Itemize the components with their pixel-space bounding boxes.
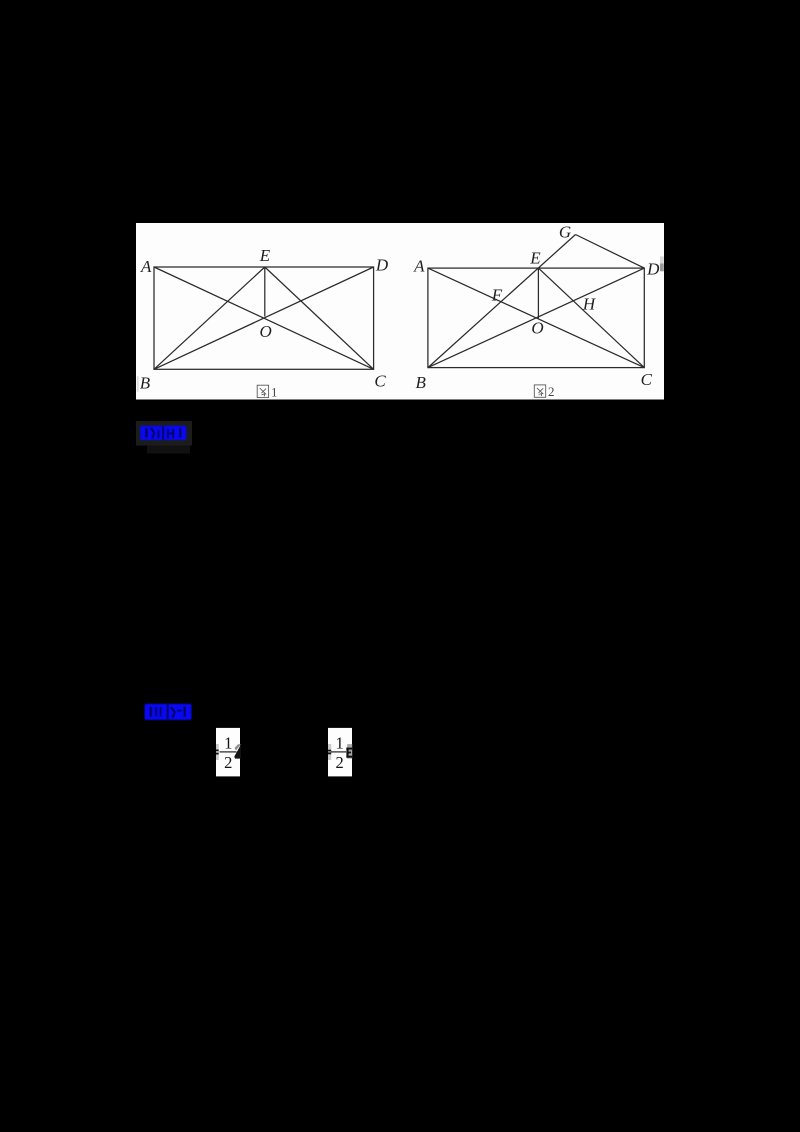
diagonal AC (figure 2) — [428, 268, 644, 368]
svg-text:B: B — [140, 374, 151, 393]
svg-text:2: 2 — [335, 753, 343, 772]
svg-text:F: F — [491, 286, 503, 305]
svg-text:E: E — [259, 246, 271, 265]
white figure panel — [136, 223, 664, 400]
blue badge 1 (【分析】) — [140, 426, 186, 440]
diagonal BD (figure 1) — [154, 267, 374, 369]
halo behind badge 1 — [136, 421, 192, 446]
svg-text:1: 1 — [335, 734, 343, 753]
white math patch 1 — [216, 728, 240, 777]
svg-text:O: O — [531, 319, 543, 338]
svg-text:1: 1 — [271, 384, 278, 399]
svg-text:D: D — [646, 260, 660, 279]
line BEG (figure 2) — [428, 235, 576, 368]
rectangle ABCD (figure 1) — [154, 267, 374, 369]
gray band left (patch 1) — [216, 744, 219, 760]
svg-text:2: 2 — [224, 753, 232, 772]
equals sign fragment (patch 2) — [328, 750, 331, 752]
svg-text:1: 1 — [224, 734, 232, 753]
svg-text:G: G — [559, 223, 571, 242]
svg-text:E: E — [529, 249, 541, 268]
segment GD (figure 2) — [576, 235, 645, 269]
segment EC (figure 2) — [538, 268, 644, 368]
dark E-like glyph right (patch 2) — [346, 748, 352, 758]
segment EO (figure 1) — [264, 267, 266, 317]
svg-text:H: H — [582, 295, 597, 314]
segment BE (figure 1) — [154, 267, 265, 369]
dark wedge glyph right (patch 1) — [234, 745, 241, 759]
white math patch 2 — [328, 728, 352, 777]
segment EO (figure 2) — [537, 268, 539, 318]
diagonal BD (figure 2) — [428, 268, 644, 368]
caption "图2" (figure 2) — [534, 385, 545, 397]
rectangle ABCD (figure 2) — [428, 268, 644, 368]
segment EC (figure 1) — [265, 267, 374, 369]
svg-text:C: C — [374, 372, 386, 391]
gray mark right of label D (figure 2, panel edge artifact) — [660, 257, 664, 264]
svg-text:D: D — [375, 256, 389, 275]
gray sliver left of label B (figure 1, panel edge artifact) — [137, 376, 139, 392]
gray band left (patch 2) — [328, 744, 331, 760]
equals sign fragment (patch 1) — [216, 750, 219, 752]
svg-text:C: C — [641, 370, 653, 389]
gray band right (patch 2) — [347, 744, 352, 759]
svg-text:B: B — [416, 373, 427, 392]
caption "图1" (figure 1) — [257, 385, 268, 397]
svg-text:A: A — [413, 257, 425, 276]
svg-text:O: O — [259, 322, 271, 341]
svg-text:2: 2 — [548, 384, 555, 399]
blue badge 2 (【解答】) — [145, 704, 192, 720]
diagonal AC (figure 1) — [154, 267, 374, 369]
svg-text:A: A — [140, 257, 152, 276]
